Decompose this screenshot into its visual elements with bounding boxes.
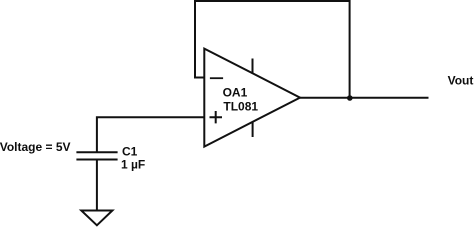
pin V+ supply stub on top edge	[252, 59, 254, 75]
wire output from op-amp apex to Vout	[300, 97, 429, 99]
non-inverting input plus symbol	[210, 111, 223, 123]
ground symbol	[81, 211, 112, 226]
wire feedback loop from output to inverting input	[195, 1, 350, 96]
wire from capacitor C1 to ground	[96, 160, 98, 212]
svg-text:TL081: TL081	[223, 99, 258, 113]
capacitor C1 top plate	[76, 151, 117, 153]
svg-text:C1: C1	[122, 144, 138, 158]
pin V- supply stub on bottom edge	[252, 122, 254, 138]
inverting input minus symbol	[210, 77, 223, 79]
svg-text:Voltage = 5V: Voltage = 5V	[0, 140, 71, 154]
op-amp OA1 triangle body	[204, 49, 300, 147]
node junction dot at output	[347, 95, 353, 101]
capacitor C1 bottom plate	[76, 159, 117, 161]
wire from capacitor C1 to non-inverting input	[97, 117, 204, 152]
svg-text:OA1: OA1	[223, 85, 248, 99]
svg-text:Vout: Vout	[448, 74, 474, 88]
svg-text:1 µF: 1 µF	[121, 157, 145, 171]
